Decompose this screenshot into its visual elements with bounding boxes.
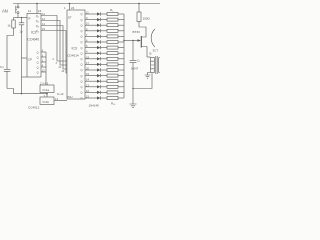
svg-text:Q: Q (81, 46, 83, 50)
svg-text:Q₄: Q₄ (36, 29, 39, 33)
svg-text:Q: Q (81, 68, 83, 72)
op IC3 CD4514 decoder (67, 10, 85, 99)
svg-text:ST: ST (68, 16, 72, 20)
diode D12 (97, 74, 107, 77)
svg-text:1μ: 1μ (20, 30, 23, 34)
svg-text:B: B (150, 52, 152, 56)
node IC3 output row 12 pin 19 (81, 72, 98, 78)
op-amp gate IC1b (40, 97, 54, 105)
label 1N4148 (89, 104, 100, 108)
svg-text:1N4148: 1N4148 (89, 104, 100, 108)
resistor R16 (107, 97, 124, 100)
node IC3 output row 1 pin 11 (81, 11, 98, 17)
node IC2 Q2 to IC3 input (36, 17, 67, 65)
label gate pins 9-12 (57, 92, 64, 96)
svg-text:CC4040: CC4040 (27, 38, 39, 42)
svg-text:IC1a: IC1a (43, 88, 50, 92)
svg-text:R₁₆: R₁₆ (111, 102, 116, 106)
node IC3 output row 6 pin 6 (81, 39, 98, 45)
svg-text:Q: Q (81, 40, 83, 44)
node IC3 output row 11 pin 20 (81, 67, 98, 73)
node IC1a input pins (40, 81, 49, 85)
svg-text:22: 22 (62, 70, 65, 73)
svg-text:Q: Q (81, 63, 83, 67)
svg-text:CD4514: CD4514 (67, 54, 79, 58)
wire bottom return (132, 73, 152, 89)
wire IC3 pin24 VDD (64, 4, 75, 11)
svg-text:Q: Q (81, 29, 83, 33)
diode D7 (97, 46, 107, 49)
svg-text:Q: Q (81, 51, 83, 55)
node IC2 Q3 to IC3 input (36, 22, 67, 69)
transistor BT33 UJT (133, 22, 148, 58)
svg-text:0.047: 0.047 (131, 67, 139, 71)
capacitor C1 0.1u (0, 65, 10, 89)
node IC3 output row 9 pin 18 (81, 55, 98, 61)
svg-text:Q: Q (37, 50, 39, 54)
wire IC2 pin16 VDD (28, 4, 42, 14)
node IC3 output row 13 pin 14 (81, 78, 98, 84)
svg-text:Q₂: Q₂ (36, 19, 39, 23)
resistor R4 (107, 29, 124, 32)
svg-text:24: 24 (71, 6, 75, 10)
node IC2 lower output 2 (37, 55, 46, 60)
wire top power rail (13, 3, 160, 5)
ground main (130, 104, 137, 108)
svg-text:Q: Q (81, 74, 83, 78)
svg-text:Q: Q (37, 70, 39, 74)
svg-text:Q: Q (81, 35, 83, 39)
resistor R2 (107, 18, 124, 21)
svg-text:21: 21 (59, 66, 62, 69)
capacitor C2 0.047 (130, 41, 140, 105)
node IC3 output row 3 pin 10 (81, 22, 98, 28)
svg-text:Q: Q (37, 55, 39, 59)
svg-text:Q: Q (81, 12, 83, 16)
transformer B pulse (147, 52, 160, 76)
resistor R8 (107, 52, 124, 55)
wire UJT emitter (123, 39, 141, 41)
svg-text:CC4012: CC4012 (28, 106, 40, 110)
diode D3 (97, 24, 107, 27)
node IC2 lower output 1 (37, 50, 46, 55)
diode D9 (97, 57, 107, 60)
node IC2 lower output 5 (37, 70, 46, 75)
resistor R9 (107, 57, 124, 60)
svg-text:IC3: IC3 (72, 47, 78, 51)
pushbutton AN (2, 4, 19, 18)
ground transformer (145, 75, 151, 78)
resistor R6 (107, 41, 124, 44)
diode D15 (97, 91, 107, 94)
diode D13 (97, 80, 107, 83)
resistor R3 (107, 24, 124, 27)
svg-text:100Ω: 100Ω (143, 17, 151, 21)
svg-text:Q: Q (81, 91, 83, 95)
node IC3 output row 15 pin 16 (81, 89, 98, 95)
wire bottom-left corners (7, 89, 14, 94)
diode D1 (97, 12, 107, 15)
svg-text:IC1b: IC1b (43, 100, 50, 104)
wire button node to IC2 reset (14, 17, 28, 18)
svg-text:Q: Q (81, 96, 83, 100)
node IC3 output row 16 pin 15 (81, 95, 98, 101)
svg-text:3CT: 3CT (153, 49, 159, 53)
resistor R1 (107, 13, 124, 16)
resistor R5 (107, 35, 124, 38)
node IC2 Q4 to IC3 input (36, 27, 67, 73)
svg-text:9~12: 9~12 (57, 92, 64, 96)
svg-text:Q: Q (81, 23, 83, 27)
svg-text:Q: Q (81, 79, 83, 83)
svg-text:Q: Q (37, 65, 39, 69)
svg-text:Q: Q (81, 57, 83, 61)
diode D5 (97, 35, 107, 38)
svg-text:INH: INH (68, 95, 73, 99)
svg-text:Q: Q (81, 85, 83, 89)
svg-text:Q: Q (81, 18, 83, 22)
resistor R10 (107, 63, 124, 66)
label CC4012 (28, 106, 40, 110)
svg-text:Q: Q (37, 60, 39, 64)
svg-text:AN: AN (2, 8, 8, 13)
svg-text:R: R (28, 16, 31, 20)
label R1 (110, 8, 113, 12)
label R16 (111, 102, 116, 106)
svg-text:1k: 1k (8, 24, 12, 28)
diode D10 (97, 63, 107, 66)
resistor R debounce 1k (8, 18, 16, 36)
resistor R12 (107, 74, 124, 77)
op IC2 CC4040 counter (27, 14, 41, 78)
node IC3 output row 5 pin 7 (81, 33, 98, 39)
node IC3 output row 2 pin 9 (81, 16, 98, 22)
resistor R7 (107, 46, 124, 49)
node gate junction (44, 93, 48, 98)
svg-text:0.1: 0.1 (0, 65, 4, 69)
node IC3 output row 8 pin 4 (81, 50, 98, 56)
svg-text:Q₁: Q₁ (36, 14, 39, 18)
resistor R14 (107, 85, 124, 88)
svg-text:Q₃: Q₃ (36, 24, 39, 28)
svg-text:BT33: BT33 (133, 30, 141, 34)
diode D14 (97, 85, 107, 88)
node IC2 Q1 to IC3 input (36, 12, 67, 61)
wire CP clock line (21, 58, 27, 94)
wire bus to IC1a (45, 52, 47, 85)
resistor R11 (107, 69, 124, 72)
resistor 100ohm (137, 4, 151, 22)
node IC3 output row 10 pin 17 (81, 61, 98, 67)
resistor R15 (107, 91, 124, 94)
diode D4 (97, 29, 107, 32)
resistor R13 (107, 80, 124, 83)
diode D8 (97, 52, 107, 55)
op-amp gate IC1a (40, 85, 54, 93)
capacitor C debounce (19, 18, 24, 59)
wire to IC1 node (14, 93, 48, 95)
node IC2 lower output 3 (37, 60, 46, 65)
wire left vertical run (7, 36, 14, 70)
diode D2 (97, 18, 107, 21)
node IC3 output row 14 pin 13 (81, 83, 98, 89)
svg-text:1: 1 (64, 6, 66, 10)
diode D16 (97, 96, 107, 99)
node IC2 lower output 4 (37, 65, 46, 70)
svg-text:3: 3 (56, 62, 58, 65)
diode D6 (97, 40, 107, 43)
diode D11 (97, 68, 107, 71)
node IC3 output row 4 pin 8 (81, 27, 98, 33)
svg-text:2: 2 (53, 58, 55, 61)
wire output bus (123, 14, 125, 98)
svg-text:C₂: C₂ (137, 59, 140, 63)
svg-text:CP: CP (28, 57, 32, 61)
svg-text:R₁: R₁ (110, 8, 113, 12)
thyristor 3CT partial (151, 29, 158, 53)
wire IC1b output to IC3 INH (54, 97, 67, 101)
svg-text:11: 11 (28, 9, 31, 13)
node IC3 output row 7 pin 5 (81, 44, 98, 50)
